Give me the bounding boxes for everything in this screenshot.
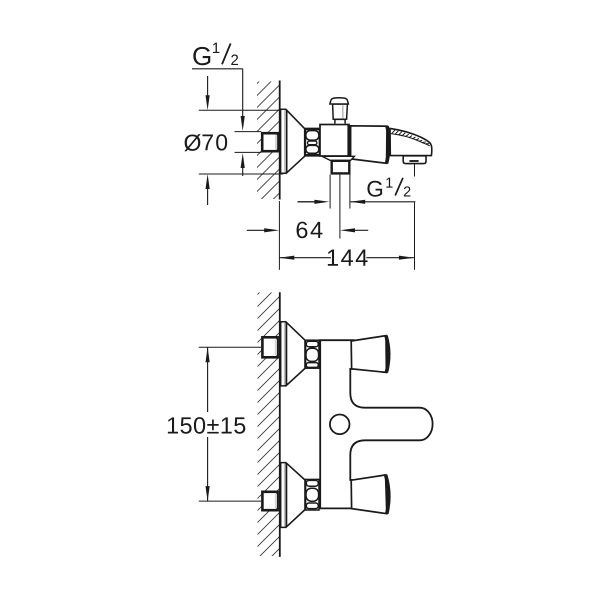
dim ext line: union square top <box>235 131 262 133</box>
dim ext line: union square bottom <box>235 151 262 153</box>
lower escutcheon plate <box>281 463 287 528</box>
ext line: outlet box left edge <box>329 175 331 209</box>
64 dim line right part w/ arrow at outlet center <box>353 229 368 231</box>
G1/2 arrow down to square top <box>241 116 245 131</box>
dim text 64 <box>297 222 323 239</box>
G1/2 arrow up to square bottom <box>242 158 244 176</box>
wall face extension line down to 144 dimension <box>278 201 280 270</box>
shower outlet hole <box>330 415 350 435</box>
dim label G1/2 (top left) <box>193 47 210 65</box>
diverter knob stem <box>330 98 349 124</box>
upper escutcheon plate <box>281 322 287 386</box>
G1/2 union square fitting on wall (side view) <box>262 133 278 151</box>
escutcheon cone (side view) <box>287 110 305 173</box>
144 dim line <box>279 257 331 259</box>
dim ext line: escutcheon top (oe70) <box>199 109 283 111</box>
shower outlet collar under body <box>322 156 354 160</box>
lower handle knob (front view) <box>351 475 387 514</box>
lower escutcheon cone <box>287 463 306 527</box>
spout hatch ticks <box>392 130 429 144</box>
dim text 150+-15 <box>168 417 245 434</box>
hex nut (side view) <box>305 128 319 156</box>
lower G1/2 union square on wall <box>262 492 277 510</box>
handle knob (side view, pointing right) <box>351 126 387 164</box>
G1/2 dim line left segment <box>298 201 316 203</box>
escutcheon base plate (side view) <box>281 109 287 173</box>
faucet body (side view) <box>320 125 349 157</box>
upper hex nut <box>306 340 319 368</box>
dim ext line: upper union centerline <box>199 346 261 348</box>
dim text 144 <box>328 250 368 266</box>
wall face line (top drawing) <box>279 81 281 200</box>
64 dim line left part w/ arrow at wall <box>247 229 266 231</box>
upper handle knob (front view) <box>351 336 386 373</box>
upper G1/2 union square on wall <box>262 337 277 357</box>
G1/2 leader vertical <box>242 69 244 118</box>
spout (side view) <box>390 128 432 155</box>
spout inner highlight curve <box>391 134 430 146</box>
dim label G1/2 (right of outlet) <box>367 181 382 197</box>
wall face line (bottom drawing) <box>279 292 281 557</box>
oe70 lower arrow <box>207 188 209 205</box>
ext line: outlet centerline <box>339 175 341 239</box>
upper escutcheon cone <box>287 322 306 385</box>
aerator (mousseur) under spout end <box>403 156 426 164</box>
lower hex nut <box>306 479 319 510</box>
oe70 upper arrow <box>207 76 209 96</box>
G1/2 leader underline <box>192 68 243 70</box>
dim text oe70 <box>184 134 200 151</box>
shower outlet G1/2 box <box>332 161 350 174</box>
faucet body (front view) outline <box>320 340 432 508</box>
aerator leader line <box>414 164 416 177</box>
dim ext line: lower union centerline <box>199 500 261 502</box>
150+-15 dimension line vertical <box>207 347 209 412</box>
ext line: outlet box right edge <box>349 175 351 209</box>
dim ext line: escutcheon bottom (oe70) <box>199 173 283 175</box>
G1/2 dim line right segment <box>350 201 415 203</box>
